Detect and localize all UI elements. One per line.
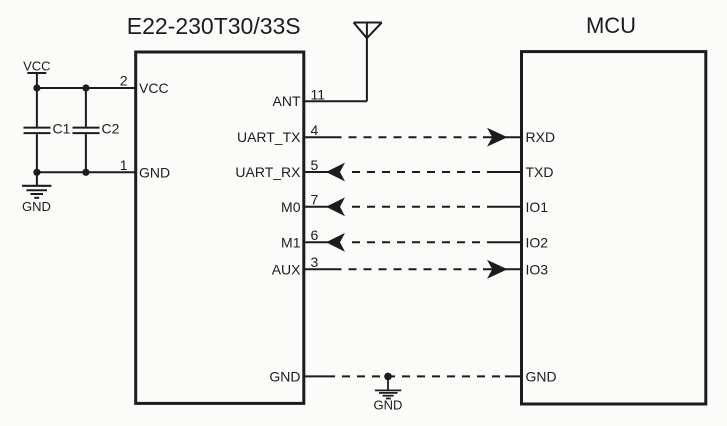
MCU box xyxy=(522,52,706,404)
svg-text:E22-230T30/33S: E22-230T30/33S xyxy=(127,13,301,39)
arrow into IO3 xyxy=(487,260,508,279)
wire GND dashed xyxy=(335,375,505,377)
wire M1 dashed xyxy=(345,241,489,243)
svg-text:4: 4 xyxy=(311,122,319,138)
svg-text:IO1: IO1 xyxy=(526,199,549,215)
svg-text:C1: C1 xyxy=(53,121,71,137)
svg-text:C2: C2 xyxy=(102,121,120,137)
node junction top C2 xyxy=(82,84,89,91)
wire IO3 stub xyxy=(483,268,522,270)
svg-text:IO2: IO2 xyxy=(526,234,549,250)
wire top rail xyxy=(37,87,136,89)
svg-text:GND: GND xyxy=(22,199,51,214)
node junction bottom C1 xyxy=(33,169,40,176)
wire M1 stub xyxy=(304,241,329,243)
wire UART_RX stub xyxy=(304,171,329,173)
svg-text:GND: GND xyxy=(526,368,557,384)
wire bottom rail xyxy=(37,171,136,173)
arrow into M1 xyxy=(326,233,345,252)
svg-text:UART_TX: UART_TX xyxy=(237,129,301,145)
svg-text:2: 2 xyxy=(120,72,128,88)
svg-text:M0: M0 xyxy=(281,199,301,215)
wire GND stub right xyxy=(505,375,522,377)
wire IO2 stub xyxy=(489,241,522,243)
antenna symbol xyxy=(354,23,382,39)
svg-text:AUX: AUX xyxy=(272,261,301,277)
svg-text:6: 6 xyxy=(311,227,319,243)
svg-text:GND: GND xyxy=(269,368,300,384)
ground left xyxy=(22,172,51,198)
svg-text:RXD: RXD xyxy=(526,129,556,145)
wire AUX dashed xyxy=(342,268,484,270)
svg-text:GND: GND xyxy=(139,164,170,180)
arrow into M0 xyxy=(326,197,345,216)
svg-text:7: 7 xyxy=(311,192,319,208)
wire ANT xyxy=(304,100,367,102)
arrow into UART_RX xyxy=(326,163,345,182)
power flag VCC xyxy=(27,73,46,88)
capacitor C2 xyxy=(73,88,100,172)
wire GND stub left xyxy=(304,375,335,377)
wire TXD stub xyxy=(489,171,522,173)
wire M0 stub xyxy=(304,206,329,208)
svg-text:11: 11 xyxy=(311,86,326,102)
wire UART_TX dashed xyxy=(342,136,484,138)
svg-text:M1: M1 xyxy=(281,234,301,250)
svg-text:ANT: ANT xyxy=(273,93,301,109)
svg-text:GND: GND xyxy=(374,398,403,413)
wire antenna riser xyxy=(366,23,368,102)
wire M0 dashed xyxy=(345,206,489,208)
node junction bottom C2 xyxy=(82,169,89,176)
node GND junction xyxy=(384,373,392,381)
ground middle xyxy=(375,376,401,398)
svg-text:1: 1 xyxy=(120,157,128,173)
svg-text:TXD: TXD xyxy=(526,164,554,180)
wire IO1 stub xyxy=(489,206,522,208)
svg-text:3: 3 xyxy=(311,254,319,270)
svg-text:VCC: VCC xyxy=(139,80,169,96)
wire RXD stub xyxy=(483,136,522,138)
arrow into RXD xyxy=(487,128,508,147)
svg-text:UART_RX: UART_RX xyxy=(235,164,301,180)
wire UART_RX dashed xyxy=(345,171,489,173)
node junction top C1 xyxy=(33,84,40,91)
wire UART_TX stub xyxy=(304,136,342,138)
svg-text:5: 5 xyxy=(311,157,319,173)
svg-text:IO3: IO3 xyxy=(526,261,549,277)
svg-text:VCC: VCC xyxy=(23,59,50,74)
wire AUX stub xyxy=(304,268,342,270)
svg-text:MCU: MCU xyxy=(586,13,636,38)
module box E22-230T30/33S xyxy=(136,52,304,403)
capacitor C1 xyxy=(24,88,51,172)
